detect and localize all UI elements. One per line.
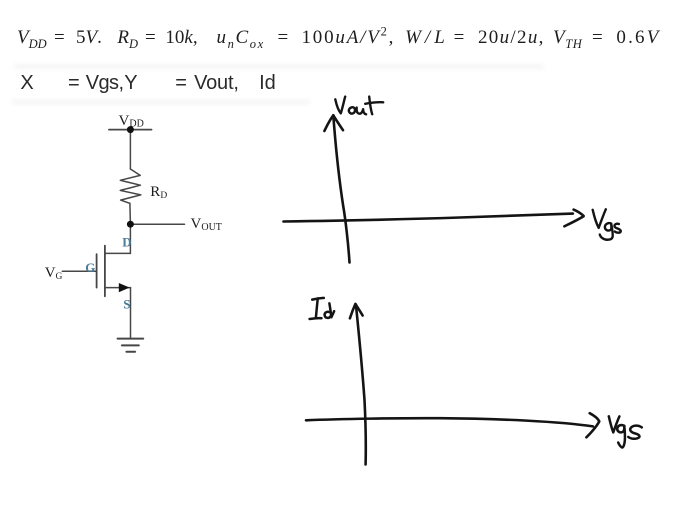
svg-text:VDD: VDD — [119, 113, 144, 130]
svg-text:D: D — [122, 234, 131, 249]
svg-text:G: G — [85, 260, 95, 275]
svg-text:RD: RD — [150, 184, 167, 201]
svg-text:VG: VG — [45, 265, 63, 282]
svg-text:S: S — [123, 297, 130, 312]
svg-text:VOUT: VOUT — [191, 216, 222, 233]
